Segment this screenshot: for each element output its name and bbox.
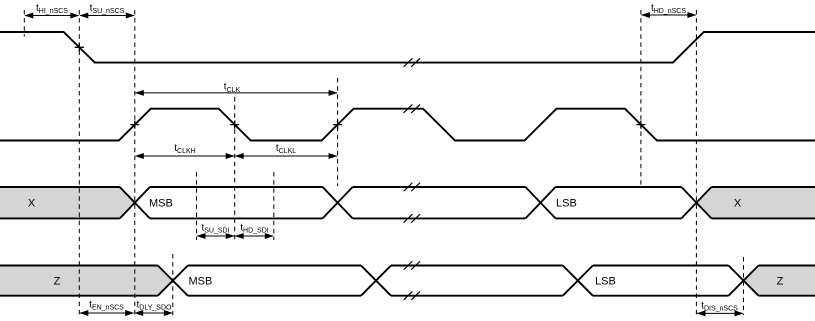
svg-text:Z: Z: [54, 276, 61, 288]
node SDO bus gray Z region right: [744, 266, 815, 296]
wire dashed reference line nSCS fall: [78, 10, 80, 315]
svg-text:LSB: LSB: [556, 198, 577, 210]
node break mark on SDO band bottom edge: [404, 291, 420, 300]
wire SCLK waveform: [0, 109, 815, 141]
wire dashed reference line SDO valid: [172, 254, 174, 316]
svg-text:tCLKH: tCLKH: [174, 143, 195, 155]
wire dashed reference line SDI hold: [273, 172, 275, 240]
arrow tEN_nSCS: [79, 310, 134, 316]
svg-text:tSU_nSCS: tSU_nSCS: [90, 3, 125, 15]
arrow tHI_nSCS: [24, 13, 79, 19]
node cross mark SCLK fall 3 midpoint: [636, 121, 645, 129]
wire SDI bus bottom edges: [0, 217, 815, 219]
svg-text:tHI_nSCS: tHI_nSCS: [36, 3, 68, 15]
wire nSCS waveform: [0, 32, 815, 63]
node SDO crossover 1: [158, 266, 188, 296]
arrow tCLKL: [235, 153, 338, 159]
svg-text:tEN_nSCS: tEN_nSCS: [89, 300, 124, 312]
node break mark on SDI band top edge: [404, 183, 420, 192]
arrow tSU_nSCS: [79, 13, 135, 19]
node break mark on SDO band top edge: [404, 261, 420, 270]
node SDO crossover 4: [729, 266, 759, 296]
svg-text:tDIS_nSCS: tDIS_nSCS: [701, 301, 738, 313]
node cross mark SCLK fall 1 midpoint: [230, 121, 239, 129]
arrow tDLY_SDO: [134, 310, 173, 316]
node SDO crossover 3: [563, 266, 593, 296]
svg-text:tHD_nSCS: tHD_nSCS: [651, 3, 686, 15]
arrow tDIS_nSCS: [696, 310, 743, 316]
wire dashed reference line nSCS rise: [695, 10, 697, 315]
node cross mark nSCS fall midpoint: [75, 43, 84, 51]
svg-text:tDLY_SDO: tDLY_SDO: [137, 300, 172, 312]
svg-text:tSU_SDI: tSU_SDI: [201, 223, 229, 235]
wire dashed reference line tHI start: [23, 10, 25, 37]
arrow tSU_SDI: [197, 233, 235, 239]
node SDI bus gray X region left: [0, 187, 135, 218]
svg-text:Z: Z: [777, 276, 784, 288]
wire dashed reference line SDI setup: [196, 172, 198, 240]
wire SDI bus top edges: [0, 186, 815, 188]
svg-text:MSB: MSB: [189, 276, 213, 288]
svg-text:tCLK: tCLK: [224, 82, 241, 94]
svg-text:tCLKL: tCLKL: [276, 143, 296, 155]
wire dashed reference line SCLK fall 1: [234, 97, 236, 240]
node break mark on nSCS low line: [404, 58, 420, 67]
wire SDO bus top edges: [0, 265, 815, 267]
node break mark on SDI band bottom edge: [404, 214, 420, 223]
svg-text:tHD_SDI: tHD_SDI: [240, 223, 269, 235]
svg-text:LSB: LSB: [595, 276, 616, 288]
node SDI bus gray X region right: [696, 187, 815, 218]
node SDO crossover 2: [361, 266, 391, 296]
node SDI crossover 4: [681, 187, 711, 218]
wire dashed reference line SCLK fall 3: [640, 10, 642, 186]
node SDO bus gray Z region left: [0, 266, 173, 296]
node SDI crossover 2: [323, 187, 353, 218]
wire SDO bus bottom edges: [0, 295, 815, 297]
wire dashed reference line SCLK rise 2: [337, 78, 339, 186]
node cross mark SCLK rise 2 midpoint: [333, 121, 342, 129]
node cross mark SCLK rise 1 midpoint: [130, 121, 139, 129]
wire dashed reference line SDO disable: [743, 257, 745, 315]
arrow tHD_SDI: [235, 233, 274, 239]
wire dashed reference line SCLK rise 1: [134, 10, 136, 315]
svg-text:X: X: [28, 198, 36, 210]
svg-text:MSB: MSB: [149, 198, 173, 210]
arrow tCLKH: [135, 153, 235, 159]
svg-text:X: X: [734, 198, 742, 210]
node break mark on SCLK high line: [404, 104, 420, 113]
node SDI crossover 1: [120, 187, 150, 218]
arrow tHD_nSCS: [641, 12, 697, 18]
arrow tCLK: [135, 90, 338, 96]
node SDI crossover 3: [526, 187, 556, 218]
